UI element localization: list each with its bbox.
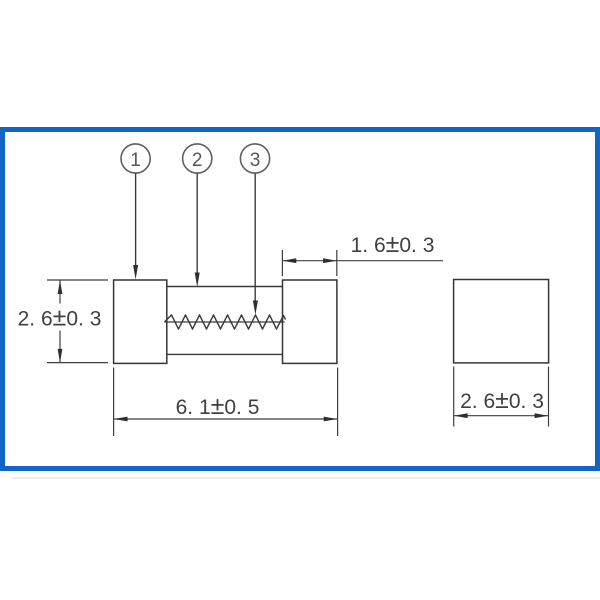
svg-text:2. 6±0. 3: 2. 6±0. 3: [18, 304, 102, 332]
extension line left: [113, 368, 115, 437]
extension line right: [337, 368, 339, 437]
leader arrow 1 (points to left end cap): [133, 174, 138, 280]
callout balloon 3: [240, 144, 269, 173]
callout balloon 1: [121, 144, 150, 173]
extension line top: [47, 279, 108, 281]
leader arrow 3 (points to fuse element): [253, 174, 258, 316]
fuse element center wire: [165, 321, 285, 323]
dimension line: [283, 260, 443, 262]
dimension cap length 1.6±0.3: [282, 230, 443, 276]
arrowhead down: [58, 349, 63, 363]
svg-text:1. 6±0. 3: 1. 6±0. 3: [351, 230, 435, 258]
body bottom line: [167, 353, 283, 355]
dimension line lower segment: [59, 331, 61, 363]
dimension line upper segment: [59, 281, 61, 304]
svg-text:2. 6±0. 3: 2. 6±0. 3: [460, 386, 544, 414]
dimension line: [454, 415, 548, 417]
svg-text:6. 1±0. 5: 6. 1±0. 5: [176, 392, 260, 420]
extension line right: [548, 367, 550, 427]
end view square: [454, 280, 549, 363]
svg-text:3: 3: [250, 150, 261, 171]
extension line bottom: [47, 362, 108, 364]
blue border frame: [3, 130, 598, 469]
arrowhead right: [323, 258, 337, 263]
arrowhead left: [454, 413, 468, 418]
extension line left: [281, 250, 283, 276]
arrowhead left: [114, 417, 128, 422]
dimension line: [114, 418, 338, 420]
arrowhead left: [283, 258, 297, 263]
dimension length 6.1±0.5: [114, 368, 338, 437]
dimension end width 2.6±0.3: [454, 367, 549, 427]
svg-text:2: 2: [192, 150, 203, 171]
svg-text:1: 1: [130, 150, 141, 171]
extension line left: [453, 367, 455, 427]
arrowhead right: [324, 417, 338, 422]
right end cap: [283, 280, 337, 363]
left end cap: [114, 280, 167, 363]
arrowhead up: [58, 280, 63, 294]
arrowhead right: [535, 413, 549, 418]
dimension height 2.6±0.3: [18, 280, 108, 363]
extension line right: [336, 250, 338, 276]
fuse element zigzag: [165, 315, 286, 329]
shadow line under frame: [12, 477, 600, 479]
callout balloon 2: [183, 144, 212, 173]
leader arrow 2 (points to ceramic body): [195, 174, 200, 288]
body top line: [167, 286, 283, 288]
